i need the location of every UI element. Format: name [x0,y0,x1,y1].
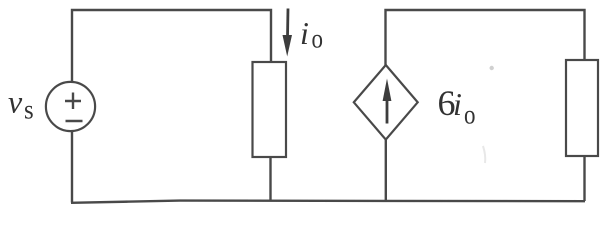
dependent current source 6io diamond [354,65,418,140]
wire top-right segment (source top lead to R2 top lead) [386,10,585,65]
voltage source minus sign [66,120,83,122]
svg-text:o: o [312,25,323,54]
scan smudge [483,146,485,163]
voltage source plus sign [65,93,81,110]
wire left segment (vs bottom to bottom rail) [71,131,73,203]
resistor R2 [566,60,598,156]
voltage source VS circle [46,82,95,131]
source arrow up [386,100,389,124]
wire bottom rail [71,201,585,203]
svg-text:v: v [8,84,23,120]
svg-text:i: i [300,15,309,51]
svg-text:i: i [453,86,462,122]
svg-text:s: s [24,95,34,125]
scan speck [490,66,494,70]
wire top-left segment (vs top to R1 top lead) [72,10,271,82]
resistor R1 [253,62,287,157]
wire R1 bottom lead [269,157,271,201]
wire source bottom lead to bottom rail [385,140,387,202]
current arrow io [286,9,289,38]
wire R2 bottom lead [583,156,585,201]
svg-text:o: o [464,101,475,130]
